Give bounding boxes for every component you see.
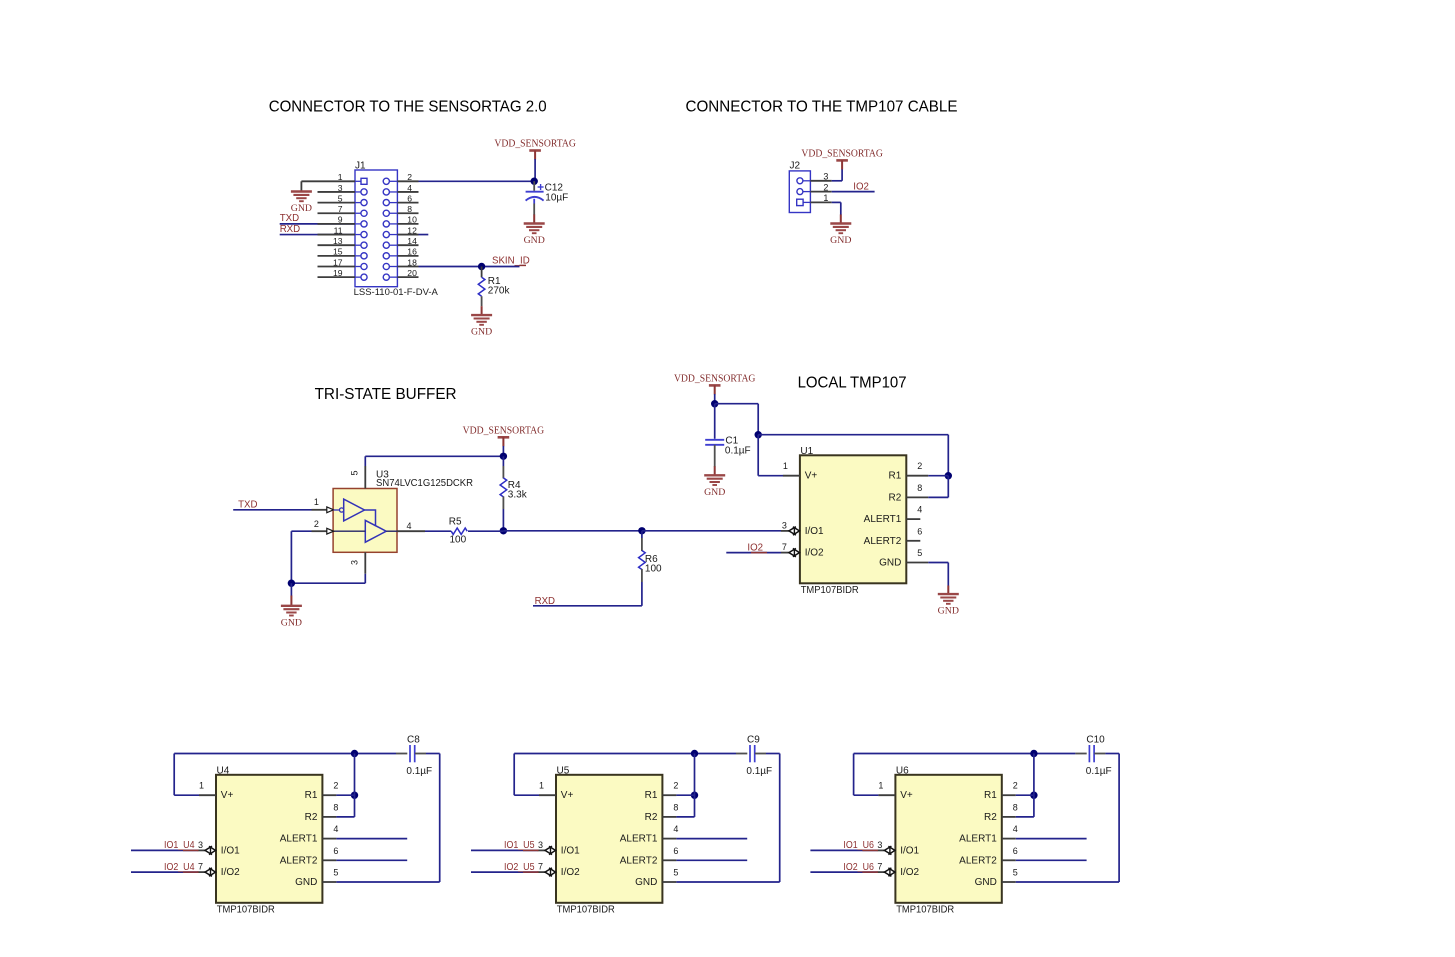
svg-text:1: 1 <box>783 461 788 471</box>
svg-text:ALERT2: ALERT2 <box>864 536 902 547</box>
svg-text:1: 1 <box>878 781 883 791</box>
svg-text:13: 13 <box>333 236 343 246</box>
svg-text:R1: R1 <box>305 790 318 801</box>
svg-text:5: 5 <box>1013 868 1018 878</box>
svg-text:TMP107BIDR: TMP107BIDR <box>801 585 859 596</box>
svg-text:2: 2 <box>823 182 828 192</box>
svg-text:6: 6 <box>917 526 922 536</box>
svg-text:RXD: RXD <box>280 224 300 235</box>
svg-text:GND: GND <box>704 487 725 498</box>
svg-text:VDD_SENSORTAG: VDD_SENSORTAG <box>494 139 576 150</box>
svg-text:0.1µF: 0.1µF <box>406 766 432 777</box>
svg-text:4: 4 <box>917 505 922 515</box>
svg-text:R1: R1 <box>645 790 658 801</box>
svg-text:14: 14 <box>407 236 417 246</box>
svg-text:GND: GND <box>830 235 851 246</box>
svg-text:I/O1: I/O1 <box>221 845 240 856</box>
svg-text:19: 19 <box>333 268 343 278</box>
svg-text:10: 10 <box>407 215 417 225</box>
svg-text:IO2_U5: IO2_U5 <box>504 862 535 873</box>
svg-text:U6: U6 <box>896 765 909 776</box>
svg-text:R2: R2 <box>645 812 658 823</box>
svg-text:8: 8 <box>407 204 412 214</box>
svg-text:V+: V+ <box>900 790 913 801</box>
svg-text:4: 4 <box>673 824 678 834</box>
svg-text:IO2: IO2 <box>853 181 869 192</box>
svg-text:TXD: TXD <box>238 499 257 510</box>
svg-text:1: 1 <box>823 193 828 203</box>
svg-text:CONNECTOR TO THE TMP107 CABLE: CONNECTOR TO THE TMP107 CABLE <box>686 99 958 116</box>
svg-text:15: 15 <box>333 247 343 257</box>
svg-text:IO1_U4: IO1_U4 <box>164 840 195 851</box>
svg-text:J1: J1 <box>355 161 366 172</box>
svg-text:1: 1 <box>314 497 319 507</box>
svg-text:0.1µF: 0.1µF <box>725 445 751 456</box>
svg-text:17: 17 <box>333 257 343 267</box>
svg-text:8: 8 <box>673 802 678 812</box>
svg-text:10µF: 10µF <box>545 193 568 204</box>
svg-text:3: 3 <box>338 183 343 193</box>
svg-text:2: 2 <box>333 781 338 791</box>
svg-text:I/O2: I/O2 <box>805 548 824 559</box>
svg-text:8: 8 <box>917 483 922 493</box>
svg-text:2: 2 <box>673 781 678 791</box>
svg-text:1: 1 <box>199 781 204 791</box>
svg-text:2: 2 <box>407 172 412 182</box>
svg-text:IO1_U6: IO1_U6 <box>843 840 874 851</box>
svg-text:5: 5 <box>333 868 338 878</box>
svg-text:SN74LVC1G125DCKR: SN74LVC1G125DCKR <box>376 478 473 489</box>
svg-text:2: 2 <box>314 519 319 529</box>
svg-text:R1: R1 <box>984 790 997 801</box>
svg-text:6: 6 <box>333 846 338 856</box>
svg-text:3: 3 <box>823 172 828 182</box>
svg-text:V+: V+ <box>561 790 574 801</box>
svg-text:I/O2: I/O2 <box>561 867 580 878</box>
svg-text:IO1_U5: IO1_U5 <box>504 840 535 851</box>
svg-text:I/O1: I/O1 <box>805 526 824 537</box>
svg-text:I/O2: I/O2 <box>900 867 919 878</box>
svg-text:I/O1: I/O1 <box>561 845 580 856</box>
svg-text:3: 3 <box>198 840 203 850</box>
svg-text:3: 3 <box>782 520 787 530</box>
svg-text:5: 5 <box>350 470 360 475</box>
svg-text:5: 5 <box>917 548 922 558</box>
svg-text:IO2_U4: IO2_U4 <box>164 862 195 873</box>
svg-text:ALERT1: ALERT1 <box>620 834 658 845</box>
svg-text:LSS-110-01-F-DV-A: LSS-110-01-F-DV-A <box>354 287 439 297</box>
svg-text:100: 100 <box>645 564 662 575</box>
svg-text:V+: V+ <box>221 790 234 801</box>
svg-text:GND: GND <box>975 877 997 888</box>
svg-text:GND: GND <box>635 877 657 888</box>
svg-text:GND: GND <box>471 327 492 338</box>
svg-text:R5: R5 <box>449 516 462 527</box>
svg-text:4: 4 <box>407 183 412 193</box>
svg-text:12: 12 <box>407 225 417 235</box>
svg-text:VDD_SENSORTAG: VDD_SENSORTAG <box>463 426 545 437</box>
svg-text:1: 1 <box>539 781 544 791</box>
svg-text:GND: GND <box>879 558 901 569</box>
svg-text:VDD_SENSORTAG: VDD_SENSORTAG <box>801 149 883 160</box>
svg-text:GND: GND <box>938 606 959 617</box>
svg-text:VDD_SENSORTAG: VDD_SENSORTAG <box>674 374 756 385</box>
svg-text:C9: C9 <box>747 735 760 746</box>
svg-text:8: 8 <box>333 802 338 812</box>
svg-text:8: 8 <box>1013 802 1018 812</box>
svg-text:TRI-STATE BUFFER: TRI-STATE BUFFER <box>315 386 457 403</box>
svg-text:TMP107BIDR: TMP107BIDR <box>217 905 275 916</box>
svg-text:3: 3 <box>350 560 360 565</box>
svg-text:CONNECTOR TO THE SENSORTAG 2.0: CONNECTOR TO THE SENSORTAG 2.0 <box>269 99 547 116</box>
svg-text:4: 4 <box>1013 824 1018 834</box>
svg-text:GND: GND <box>524 235 545 246</box>
svg-text:J2: J2 <box>790 161 801 172</box>
svg-text:C10: C10 <box>1086 735 1105 746</box>
svg-text:GND: GND <box>295 877 317 888</box>
svg-text:I/O2: I/O2 <box>221 867 240 878</box>
svg-text:5: 5 <box>673 868 678 878</box>
svg-text:ALERT2: ALERT2 <box>280 855 318 866</box>
svg-text:TMP107BIDR: TMP107BIDR <box>557 905 615 916</box>
svg-text:6: 6 <box>1013 846 1018 856</box>
svg-text:V+: V+ <box>805 471 818 482</box>
svg-text:R1: R1 <box>889 471 902 482</box>
svg-text:ALERT2: ALERT2 <box>959 855 997 866</box>
svg-text:3: 3 <box>877 840 882 850</box>
svg-text:18: 18 <box>407 257 417 267</box>
svg-text:U1: U1 <box>800 446 813 457</box>
svg-text:4: 4 <box>333 824 338 834</box>
svg-text:3: 3 <box>538 840 543 850</box>
svg-text:R2: R2 <box>984 812 997 823</box>
svg-text:2: 2 <box>917 461 922 471</box>
svg-text:7: 7 <box>538 862 543 872</box>
svg-text:20: 20 <box>407 268 417 278</box>
svg-text:4: 4 <box>407 521 412 531</box>
svg-text:I/O1: I/O1 <box>900 845 919 856</box>
svg-text:ALERT2: ALERT2 <box>620 855 658 866</box>
svg-text:R2: R2 <box>305 812 318 823</box>
svg-text:7: 7 <box>877 862 882 872</box>
svg-text:3.3k: 3.3k <box>508 489 528 500</box>
svg-text:16: 16 <box>407 247 417 257</box>
svg-text:GND: GND <box>281 617 302 628</box>
svg-text:ALERT1: ALERT1 <box>280 834 318 845</box>
svg-text:IO2_U6: IO2_U6 <box>843 862 874 873</box>
svg-text:ALERT1: ALERT1 <box>864 514 902 525</box>
svg-text:6: 6 <box>673 846 678 856</box>
svg-text:RXD: RXD <box>535 596 555 607</box>
svg-text:7: 7 <box>782 542 787 552</box>
svg-text:7: 7 <box>338 204 343 214</box>
svg-text:TXD: TXD <box>280 213 299 224</box>
svg-text:U4: U4 <box>217 765 230 776</box>
svg-text:2: 2 <box>1013 781 1018 791</box>
svg-text:TMP107BIDR: TMP107BIDR <box>896 905 954 916</box>
svg-text:270k: 270k <box>488 285 511 296</box>
svg-text:0.1µF: 0.1µF <box>1086 766 1112 777</box>
svg-text:0.1µF: 0.1µF <box>746 766 772 777</box>
svg-text:LOCAL TMP107: LOCAL TMP107 <box>798 374 907 391</box>
svg-text:ALERT1: ALERT1 <box>959 834 997 845</box>
svg-text:5: 5 <box>338 193 343 203</box>
svg-text:R2: R2 <box>889 492 902 503</box>
svg-text:6: 6 <box>407 193 412 203</box>
svg-text:C8: C8 <box>407 735 420 746</box>
svg-text:100: 100 <box>450 535 467 546</box>
svg-text:U5: U5 <box>557 765 570 776</box>
svg-text:7: 7 <box>198 862 203 872</box>
